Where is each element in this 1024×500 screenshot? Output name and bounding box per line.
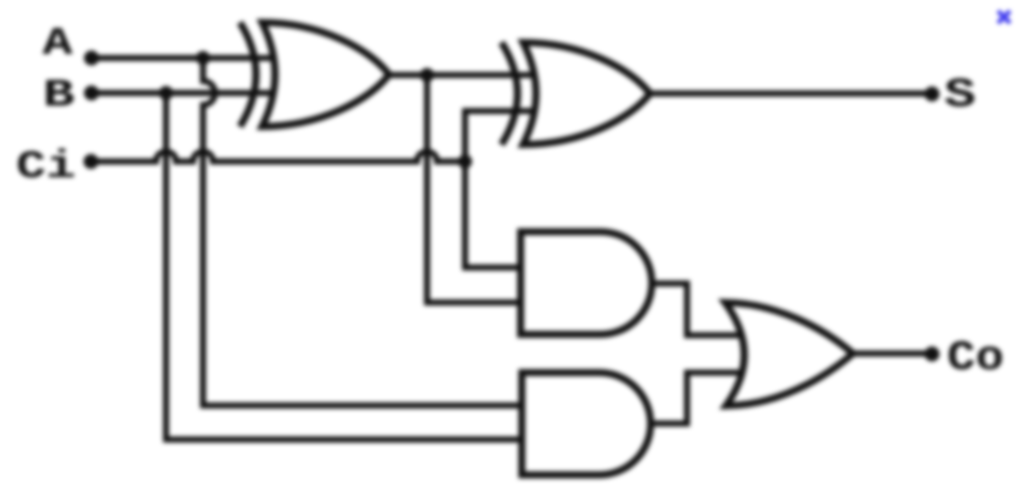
xor gate U1 input-side arc xyxy=(240,23,256,127)
svg-text:Ci: Ci xyxy=(16,145,76,189)
wire B input xyxy=(92,90,286,96)
wire AND1 to OR xyxy=(650,284,750,336)
svg-text:B: B xyxy=(43,74,75,118)
terminal node A xyxy=(84,51,99,66)
wire B to AND2 xyxy=(166,93,524,440)
junction Ci xyxy=(458,155,472,169)
xor gate U2 ((A xor B) xor Ci) xyxy=(523,43,650,145)
or gate U5 (carry out) xyxy=(725,303,853,406)
xor gate U1 (A xor B) xyxy=(262,23,389,127)
wire A to AND2 (vertical drop with hop over B) xyxy=(203,58,524,406)
terminal node Ci xyxy=(84,154,99,169)
wire A input xyxy=(92,55,286,61)
svg-text:Co: Co xyxy=(947,334,1004,382)
wire Ci to AND1 xyxy=(465,162,524,268)
and gate U3 ((A xor B) and Ci) xyxy=(521,232,652,335)
svg-text:A: A xyxy=(42,22,73,66)
terminal node S xyxy=(925,87,940,102)
and gate U4 (A and B) xyxy=(522,373,651,475)
terminal node B xyxy=(84,86,99,101)
wire Ci to XOR2 xyxy=(465,111,548,162)
wire XOR1 output to XOR2 xyxy=(388,72,548,78)
junction B xyxy=(159,86,173,100)
wire Co output xyxy=(853,351,932,357)
junction XOR1 out xyxy=(420,68,434,82)
wire Ci input (with hops over verticals) xyxy=(91,152,465,162)
terminal node Co xyxy=(925,347,940,362)
wire AND2 to OR xyxy=(649,373,750,424)
svg-text:S: S xyxy=(944,71,976,119)
wire XOR1 output drop to AND1 xyxy=(427,75,524,303)
xor gate U2 input-side arc xyxy=(502,43,518,145)
junction A xyxy=(196,51,210,65)
wire S output xyxy=(650,91,933,97)
blue close marker top-right xyxy=(989,2,1019,32)
